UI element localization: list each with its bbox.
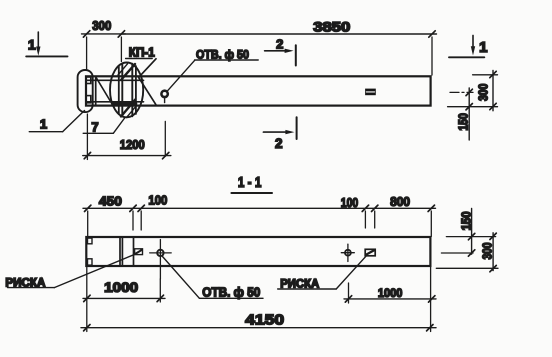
svg-text:1000: 1000 <box>378 286 403 300</box>
svg-text:450: 450 <box>99 194 122 209</box>
loop anchor tab lower <box>86 96 91 103</box>
ext 800 right <box>430 211 432 237</box>
oval hatch top <box>121 64 135 80</box>
svg-text:1: 1 <box>28 37 36 53</box>
oval bar line d <box>135 66 137 114</box>
hole (plan) <box>161 91 167 97</box>
dimension 300 right (section) <box>492 233 494 271</box>
hole leader (plan) <box>167 60 195 91</box>
plate line a (section) <box>119 237 121 266</box>
tick 100b left <box>362 205 368 211</box>
oval bar line c <box>131 64 133 117</box>
embedded channel top edge <box>87 79 144 81</box>
embedded part KP-1 oval <box>110 63 143 118</box>
svg-text:2: 2 <box>275 136 283 151</box>
hole right (section) <box>345 250 351 256</box>
hole left (section) <box>157 250 163 256</box>
hole tick below <box>164 97 166 102</box>
chain dimension line (450/100 .. 100/800) <box>83 207 436 209</box>
dimension 150 right (plan) <box>468 88 470 140</box>
svg-text:300: 300 <box>92 18 111 33</box>
lifting loop (stadium) <box>78 70 93 112</box>
riska rect left (section) <box>135 249 143 255</box>
oval bar line b <box>121 64 123 117</box>
svg-text:100: 100 <box>341 195 359 210</box>
ext 100 left a <box>132 211 134 230</box>
plate line c (section) <box>133 237 135 266</box>
ext 450 left <box>87 211 89 237</box>
svg-text:1: 1 <box>40 116 47 131</box>
riska slit <box>366 91 374 93</box>
svg-text:100: 100 <box>148 193 167 208</box>
svg-text:300: 300 <box>477 84 491 101</box>
ext 100b b <box>374 211 376 228</box>
svg-text:1: 1 <box>479 39 487 56</box>
tick 800 right <box>428 205 434 211</box>
beam end plate vertical <box>95 76 97 105</box>
end tab upper (section) <box>88 238 93 244</box>
riska rect right (section) <box>365 249 375 256</box>
OTV underline top <box>195 59 259 61</box>
dimension 300 right (plan) <box>492 71 494 111</box>
tick 450/100 <box>130 205 136 211</box>
tick 450 left <box>85 205 91 211</box>
loop anchor tab upper <box>86 77 91 84</box>
svg-text:1200: 1200 <box>120 137 145 152</box>
svg-text:150: 150 <box>457 113 471 131</box>
svg-text:4150: 4150 <box>245 312 284 329</box>
svg-text:ОТВ. ф 50: ОТВ. ф 50 <box>202 285 260 299</box>
KP-1 leader upper <box>139 59 156 78</box>
svg-text:2: 2 <box>276 37 283 52</box>
embedded channel bottom edge <box>87 101 144 103</box>
dark band under oval <box>113 102 137 105</box>
dimension 150 right (section) <box>471 209 473 255</box>
section mark 2 bottom <box>263 131 289 133</box>
weld blob <box>112 101 117 106</box>
oval bar line a <box>118 66 120 114</box>
ext 100b a <box>364 211 366 228</box>
tick 100b right <box>372 205 378 211</box>
svg-text:800: 800 <box>390 194 410 209</box>
svg-text:1000: 1000 <box>104 280 138 295</box>
riska mark (plan) <box>365 89 376 96</box>
KP-1 leader lower <box>139 77 157 105</box>
tick 100 right <box>138 205 144 211</box>
end tab lower (section) <box>88 259 93 265</box>
beam outline (plan view) <box>86 76 431 105</box>
ext 100 left b <box>140 211 142 230</box>
svg-text:3850: 3850 <box>313 19 350 34</box>
oval hatch bottom <box>121 100 135 117</box>
svg-text:150: 150 <box>460 211 474 230</box>
svg-text:КП-1: КП-1 <box>129 45 155 59</box>
plate line b (section) <box>121 237 123 266</box>
KP-1 underline <box>126 58 153 60</box>
svg-text:300: 300 <box>481 242 495 259</box>
beam outline (section view) <box>86 237 430 266</box>
svg-text:7: 7 <box>91 120 98 135</box>
svg-text:1 - 1: 1 - 1 <box>238 174 262 191</box>
diagonal brace left <box>96 77 113 105</box>
